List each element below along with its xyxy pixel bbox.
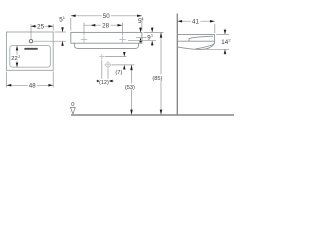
dim 41 (depth, side): [177, 21, 215, 33]
svg-text:(85): (85): [152, 76, 162, 82]
dim (53) drain height: [131, 65, 133, 115]
svg-text:28: 28: [102, 23, 109, 30]
svg-text:22: 22: [11, 56, 18, 62]
dim 48 (overall width, plan): [7, 72, 54, 88]
dim 9 sup 1 (rim top to fixing holes, front right): [128, 27, 156, 46]
tap hole: [29, 40, 32, 43]
water supply cross: [99, 54, 104, 59]
svg-text:(12): (12): [99, 80, 109, 86]
washbasin rim band (front): [71, 32, 142, 43]
wall line: [176, 14, 178, 116]
svg-text:1: 1: [18, 53, 20, 58]
rim top extension line to (85): [144, 31, 164, 33]
dim 5 sup 1 (rim top to tap hole axis, front right): [136, 27, 147, 43]
svg-text:48: 48: [29, 83, 36, 90]
dim (85) rim height: [160, 32, 162, 114]
fixing hole cross left: [81, 36, 87, 44]
washbasin side profile: [177, 34, 214, 49]
dim (12) horizontal supply-to-drain: [96, 60, 114, 84]
overflow slot: [24, 48, 38, 50]
floor line: [71, 114, 234, 116]
dim 25 (tap hole to right edge): [31, 24, 54, 39]
washbasin outer rim (plan): [7, 32, 54, 70]
dim 28 (fixing holes distance): [84, 23, 123, 35]
svg-text:41: 41: [192, 19, 199, 26]
dim 22 (bowl depth, plan): [16, 46, 18, 67]
fixing hole cross right: [119, 36, 125, 44]
washbasin body below rim (front): [74, 43, 138, 48]
svg-text:50: 50: [103, 13, 110, 20]
dim 5 (superscript 1), back edge to tap hole: [34, 27, 67, 46]
dim 50 (overall width, front): [71, 16, 142, 31]
basin bowl (plan): [10, 46, 51, 68]
svg-text:(7): (7): [115, 70, 122, 76]
svg-text:(53): (53): [125, 85, 135, 91]
svg-text:25: 25: [37, 24, 44, 31]
drain crosshair: [105, 61, 112, 68]
dim (7) vertical supply-to-drain: [105, 57, 135, 65]
dim 14 sup 2 (front apron height): [202, 29, 229, 55]
